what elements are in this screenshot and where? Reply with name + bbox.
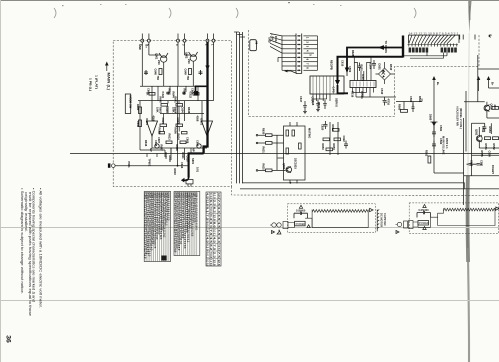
svg-text:MODE SW: MODE SW: [129, 96, 133, 109]
fold mark 4: [414, 8, 416, 18]
svg-text:0.022: 0.022: [161, 92, 165, 99]
svg-text:R616: R616: [144, 140, 148, 147]
svg-text:2.3: 2.3: [213, 252, 217, 259]
svg-text:R618: R618: [168, 156, 172, 163]
svg-text:R628: R628: [351, 50, 355, 57]
svg-text:C608: C608: [186, 137, 190, 144]
fold mark 1: [54, 8, 56, 18]
svg-text:7.5: 7.5: [217, 252, 221, 259]
svg-text:C502: C502: [348, 66, 352, 73]
svg-text:C620: C620: [321, 124, 325, 131]
ladder right rail: [301, 34, 303, 74]
terminal P601: [112, 164, 116, 168]
svg-text:REC/PB: REC/PB: [330, 60, 334, 70]
speck marks: [100, 4, 102, 5]
svg-text:R630: R630: [262, 128, 266, 135]
svg-text:P601: P601: [127, 162, 131, 169]
base wires: [149, 54, 161, 56]
svg-text:0.3 0: 0.3 0: [206, 244, 210, 251]
cap C562: [432, 141, 436, 149]
right block frame wires: [464, 55, 499, 205]
svg-text:R554: R554: [488, 127, 492, 134]
dashed box A main amp P.C.B.: [113, 41, 231, 187]
bridge arrows: [382, 70, 385, 73]
thick feed wire B: [338, 57, 404, 83]
svg-text:TP601: TP601: [148, 159, 152, 167]
svg-text:7.5: 7.5: [206, 214, 210, 221]
ladder bottom arrow: [284, 70, 287, 73]
svg-text:4.5: 4.5: [217, 229, 221, 236]
transistor Q602: [190, 55, 196, 61]
component blob: [194, 91, 198, 96]
svg-text:2.3: 2.3: [213, 200, 217, 207]
plug connector 2: [396, 221, 419, 229]
thick feed wire A: [347, 48, 404, 72]
svg-text:(MODEL V CON.): (MODEL V CON.): [459, 108, 463, 129]
transistor Q550: [484, 105, 490, 111]
emitter resistor drops: [163, 66, 165, 86]
bridge wires: [376, 62, 395, 84]
svg-text:NP: NP: [192, 148, 196, 152]
transistor Q551: [476, 136, 482, 142]
svg-text:C.FG: C.FG: [332, 87, 336, 93]
motor block 2 dashed enclosure: [409, 203, 499, 234]
svg-text:1.2 8.6: 1.2 8.6: [209, 259, 213, 266]
svg-text:Q602: Q602: [184, 52, 188, 59]
svg-text:4.5: 4.5: [213, 237, 217, 244]
cap C552: [483, 123, 486, 132]
svg-text:0.6 0.3: 0.6 0.3: [217, 244, 221, 251]
wire A tail to IC: [346, 72, 348, 77]
dashed segment y194.5: [232, 187, 499, 196]
wire from P601: [115, 165, 189, 167]
svg-text:4.5: 4.5: [209, 237, 213, 244]
svg-text:C560: C560: [409, 96, 413, 103]
heater element bar 2: [418, 208, 495, 227]
svg-text:D560: D560: [429, 114, 433, 121]
IC pin hatch: [313, 76, 333, 94]
svg-text:R605: R605: [158, 128, 162, 135]
svg-text:C613: C613: [161, 118, 165, 125]
svg-text:B+: B+: [436, 82, 440, 86]
svg-text:4.5: 4.5: [206, 193, 210, 200]
svg-text:C617: C617: [299, 96, 303, 103]
svg-text:5.6K: 5.6K: [156, 107, 160, 113]
svg-text:IC601: IC601: [200, 118, 204, 125]
terminal ink blob: [108, 163, 111, 167]
svg-text:AUX,DOLBY NR: AUX,DOLBY NR: [456, 106, 460, 126]
svg-text:12.6: 12.6: [213, 214, 217, 221]
cap C560: [412, 104, 415, 113]
faint rule y=227: [0, 227, 499, 229]
resistor R631: [266, 142, 273, 145]
svg-text:R643: R643: [183, 89, 187, 96]
svg-text:784: 784: [186, 76, 190, 81]
svg-text:B+: B+: [144, 45, 148, 49]
box A interconnect stubs: [147, 86, 198, 157]
svg-text:R646: R646: [187, 107, 191, 114]
left rail: [139, 101, 141, 150]
input arrows block1: [272, 231, 275, 234]
IC501 top pins: [354, 57, 371, 81]
svg-text:DOLBY: DOLBY: [491, 165, 495, 174]
svg-text:2SC: 2SC: [157, 60, 161, 65]
svg-text:14 13 12 11 10 9 8 7 6 5 4 3 2: 14 13 12 11 10 9 8 7 6 5 4 3 2 1: [409, 31, 460, 35]
svg-text:4.5: 4.5: [217, 222, 221, 229]
diode bridge D501: [379, 68, 391, 80]
svg-text:R560: R560: [398, 104, 402, 111]
svg-text:C648: C648: [154, 69, 158, 76]
svg-text:C607: C607: [157, 137, 161, 144]
dashed bottom segment right: [231, 186, 233, 188]
diagonal fan to edge: [270, 34, 282, 54]
svg-text:R644: R644: [172, 92, 176, 99]
voltage table block 1: [144, 192, 170, 262]
svg-text:0.01: 0.01: [196, 167, 200, 173]
svg-text:S601: S601: [191, 158, 195, 165]
voltage table block 3: [206, 192, 221, 266]
fold mark 3: [236, 8, 238, 18]
connector pin circles on box edge: [141, 39, 144, 42]
svg-text:3.4 5.1: 3.4 5.1: [206, 229, 210, 236]
svg-text:4.5: 4.5: [217, 214, 221, 221]
svg-text:Q603: Q603: [282, 163, 286, 170]
connector CN501 body line: [409, 35, 460, 43]
connector CB601 pin stubs: [141, 34, 143, 40]
svg-text:R CH: R CH: [274, 36, 278, 42]
svg-text:7.5 4.5: 7.5 4.5: [209, 252, 213, 259]
svg-text:• Schematic diagram is subject: • Schematic diagram is subject to change…: [20, 188, 24, 294]
svg-text:R647: R647: [160, 145, 164, 152]
svg-text:R611: R611: [181, 153, 185, 160]
IC bottom pin stubs: [313, 94, 330, 101]
svg-text:C615: C615: [341, 60, 345, 67]
POWER box 1: [295, 221, 306, 226]
faint rule y=300: [0, 300, 499, 302]
svg-text:C622: C622: [342, 136, 346, 143]
ladder left feed wires: [270, 34, 318, 74]
Q603 sub-circuit box: [284, 126, 306, 180]
resistor R560: [401, 110, 408, 113]
svg-text:0.022: 0.022: [189, 92, 193, 99]
svg-text:6.2: 6.2: [209, 244, 213, 251]
capacitor sym block2: [417, 211, 431, 218]
resistor R562: [428, 156, 431, 163]
CN501 fan wires: [409, 35, 455, 43]
svg-text:R642: R642: [168, 89, 172, 96]
svg-text:C510: C510: [380, 88, 384, 95]
MODE SW label box: [125, 94, 130, 114]
mid cluster C/R x322-350: [323, 121, 348, 155]
plug connector 1: [270, 222, 295, 229]
bus wire x236.5: [236, 32, 238, 183]
svg-text:0.6 1.2: 0.6 1.2: [206, 252, 210, 259]
svg-text:2SC1815: 2SC1815: [294, 158, 298, 169]
svg-text:1 (FLAT): 1 (FLAT): [95, 75, 99, 89]
resistor R632: [266, 169, 273, 172]
cap C551: [475, 164, 483, 166]
notes bullet text: [20, 188, 43, 316]
ground symbols: [303, 110, 320, 114]
right side wires: [303, 35, 317, 37]
svg-text:8.6 5.1: 8.6 5.1: [206, 222, 210, 229]
ladder pin arrowheads: [297, 35, 301, 71]
right-mid cluster wires: [396, 79, 464, 173]
svg-text:0.1: 0.1: [209, 200, 213, 207]
caps cluster below ladder: [303, 100, 327, 111]
IC501 bottom pins: [353, 88, 397, 98]
svg-text:R613: R613: [168, 134, 172, 141]
svg-text:C603: C603: [165, 107, 169, 114]
resistor R552: [493, 137, 499, 140]
svg-text:5.6K: 5.6K: [172, 107, 176, 113]
svg-text:Q609 6.2 5.1 0 8.6 5.1 2.3: Q609 6.2 5.1 0 8.6 5.1 2.3: [166, 192, 170, 221]
warning triangle 2b: [423, 227, 426, 230]
svg-text:R610: R610: [164, 153, 168, 160]
table block1 text rows: [144, 192, 171, 259]
svg-text:R632: R632: [262, 164, 266, 171]
scan crease smudge: [468, 0, 471, 34]
svg-text:3.4: 3.4: [217, 237, 221, 244]
bus wire x242.4: [241, 32, 243, 183]
arrow on wire A: [378, 45, 384, 50]
svg-text:R552: R552: [492, 144, 496, 151]
thick bus riser: [402, 36, 404, 58]
svg-text:R653: R653: [321, 144, 325, 151]
svg-text:Q550: Q550: [490, 104, 494, 111]
svg-text:100/400: 100/400: [296, 209, 306, 213]
svg-text:C649: C649: [183, 69, 187, 76]
svg-text:7.5: 7.5: [209, 229, 213, 236]
svg-text:R561: R561: [418, 96, 422, 103]
svg-text:R516: R516: [351, 91, 355, 98]
svg-text:R614: R614: [177, 134, 181, 141]
svg-text:5.1 2.3: 5.1 2.3: [209, 193, 213, 199]
svg-text:7.5: 7.5: [213, 244, 217, 251]
svg-text:2SC: 2SC: [187, 59, 191, 64]
bus wire y86: [140, 85, 206, 87]
svg-text:TO CB601: TO CB601: [384, 41, 388, 54]
extra labels box A density: [136, 89, 200, 176]
svg-text:GND: GND: [267, 37, 271, 43]
svg-text:Q551: Q551: [475, 129, 479, 136]
thick signal wire from pin 5: [189, 42, 208, 178]
arrowhead wire B: [335, 80, 340, 86]
svg-text:5.1 5.1: 5.1 5.1: [213, 229, 217, 236]
op-amp IC601b: [202, 121, 213, 136]
right arrow tri 2: [496, 207, 499, 210]
svg-text:2SC: 2SC: [493, 105, 497, 110]
ground arrow block1: [277, 230, 281, 234]
ladder pin pairs: [294, 36, 301, 70]
right arrow tri 1: [370, 208, 373, 211]
input arrows block2: [396, 231, 399, 234]
cap C510 below: [383, 97, 387, 106]
part labels amp: [136, 44, 204, 165]
IC501 hatch texture: [353, 82, 374, 87]
diode D560: [431, 122, 438, 129]
svg-text:R619: R619: [173, 169, 177, 176]
cap C550: [467, 164, 475, 166]
long solid line y=198: [240, 188, 499, 190]
svg-text:12.6: 12.6: [217, 259, 221, 266]
svg-text:B+: B+: [491, 82, 495, 86]
arrowhead wire A down: [345, 68, 350, 73]
svg-text:R562: R562: [425, 150, 429, 157]
svg-text:7.5: 7.5: [217, 200, 221, 207]
svg-text:POWER: POWER: [419, 221, 429, 225]
input pins left: [256, 134, 265, 171]
svg-text:C611: C611: [136, 121, 140, 128]
svg-text:Q508 12.6 5.1 12.6 11.2 8.6 0.: Q508 12.6 5.1 12.6 11.2 8.6 0.3 12.6 2.3…: [194, 192, 198, 230]
svg-text:C561: C561: [439, 125, 443, 132]
svg-text:C604: C604: [181, 107, 185, 114]
cap C561: [432, 129, 436, 137]
bus wire x239.6: [239, 32, 241, 183]
svg-text:0.1: 0.1: [206, 207, 210, 214]
svg-text:0.1 0: 0.1 0: [213, 193, 217, 199]
arrow up B1: [477, 76, 481, 80]
svg-text:Q601: Q601: [155, 53, 159, 60]
IC601 REC/PB box: [310, 76, 344, 94]
svg-text:7.5 0.1: 7.5 0.1: [209, 207, 213, 214]
svg-text:IC501: IC501: [361, 74, 365, 81]
svg-text:IC601: IC601: [145, 118, 149, 125]
bus pin ticks: [234, 32, 245, 37]
capacitor sym block1: [294, 212, 308, 219]
arrow MAIN (L): [106, 64, 108, 71]
CN501 label boxes row: [409, 48, 457, 53]
capacitors C601-C606: [144, 70, 203, 148]
resistors R601-R612: [139, 69, 200, 144]
svg-text:R555: R555: [480, 151, 484, 158]
svg-text:47/16: 47/16: [387, 99, 391, 106]
svg-text:R551: R551: [484, 144, 488, 151]
svg-text:C618: C618: [311, 99, 315, 106]
wire end hook: [184, 178, 189, 181]
small component below box A: [186, 180, 193, 187]
svg-text:3.4: 3.4: [217, 207, 221, 214]
transistor Q603: [286, 167, 292, 173]
resistor R550: [492, 107, 499, 110]
heater element bar 1: [305, 210, 368, 228]
svg-text:POWER: POWER: [296, 222, 306, 226]
warning triangle 2a: [423, 205, 426, 208]
arrow up B2: [487, 76, 491, 80]
svg-text:4558: 4558: [196, 116, 200, 122]
svg-text:CAPSTAN: CAPSTAN: [383, 213, 387, 225]
wires to box: [272, 122, 297, 183]
bottom joins: [151, 136, 153, 148]
svg-text:5.1 0.6: 5.1 0.6: [206, 259, 210, 266]
svg-text:C551: C551: [480, 160, 484, 167]
svg-text:36: 36: [4, 335, 11, 343]
svg-text:4558: 4558: [152, 116, 156, 122]
svg-text:C610: C610: [186, 156, 190, 163]
svg-text:NP: NP: [149, 148, 153, 152]
POWER box 2: [418, 221, 429, 226]
resistor R630: [266, 134, 273, 137]
voltage table block 2: [174, 192, 200, 256]
svg-text:1K: 1K: [146, 92, 150, 95]
svg-text:R620: R620: [136, 104, 140, 111]
svg-text:MUTING: MUTING: [308, 128, 312, 138]
svg-text:C552: C552: [481, 126, 485, 133]
net tag box P.C.B.: [250, 40, 257, 51]
dashed boundary B: [249, 30, 479, 117]
svg-text:0 0: 0 0: [209, 222, 213, 229]
svg-text:• All voltages are measured wi: • All voltages are measured with a 10MΩ/…: [39, 188, 43, 308]
svg-text:1 PB (L): 1 PB (L): [89, 78, 93, 91]
extra labels box A band2: [149, 92, 200, 173]
table block2 text rows: [173, 192, 198, 252]
svg-text:11.2 6.2: 11.2 6.2: [217, 193, 221, 199]
svg-text:R510: R510: [389, 64, 393, 71]
svg-text:C616: C616: [180, 162, 184, 169]
svg-text:GND: GND: [138, 44, 142, 50]
CN501 lower wires: [404, 53, 447, 59]
svg-text:C504: C504: [369, 63, 373, 70]
center rails: [151, 86, 153, 121]
table block1 footer cell: [162, 256, 167, 261]
warning triangle 1b: [307, 225, 310, 228]
svg-text:R631: R631: [262, 147, 266, 154]
resistors in box: [286, 130, 289, 136]
thick stub below arrow B: [338, 85, 349, 93]
ladder connector CB602 left rail: [295, 34, 297, 74]
svg-text:12.6: 12.6: [206, 200, 210, 206]
table block3 cell text: [206, 193, 222, 266]
fold mark 2: [169, 8, 171, 18]
svg-text:MAIN VOLUME: MAIN VOLUME: [442, 136, 446, 155]
svg-text:C554: C554: [488, 151, 492, 158]
svg-text:R652: R652: [331, 125, 335, 132]
svg-text:6.2: 6.2: [213, 207, 217, 214]
warning triangle 1a: [299, 205, 302, 208]
svg-text:DC MOTOR: DC MOTOR: [380, 213, 384, 227]
shield line 1: [377, 210, 379, 232]
svg-text:R503: R503: [360, 65, 364, 72]
thick wire arrowhead: [205, 66, 209, 71]
svg-text:784: 784: [156, 76, 160, 81]
caps near IC501: [358, 60, 376, 71]
svg-text:TP501: TP501: [360, 91, 364, 99]
svg-text:1K: 1K: [195, 92, 199, 95]
junction dot: [177, 165, 179, 167]
svg-text:4.5: 4.5: [206, 237, 210, 244]
motor block 1 dashed enclosure: [288, 204, 376, 233]
resistor R551: [485, 137, 491, 140]
CN501 pin header row: [408, 44, 459, 47]
svg-text:8.6: 8.6: [213, 222, 217, 229]
svg-text:0.3: 0.3: [209, 214, 213, 221]
svg-text:C606: C606: [196, 140, 200, 147]
svg-text:R500 2.1: R500 2.1: [445, 138, 449, 149]
wire drops from connector: [141, 42, 143, 86]
svg-text:12.6: 12.6: [213, 259, 217, 266]
svg-text:R648: R648: [175, 145, 179, 152]
scan edge left: [0, 0, 1, 362]
svg-text:R654: R654: [332, 144, 336, 151]
bus wire y100: [138, 100, 214, 102]
B+ stub marks top right: [460, 35, 475, 40]
svg-text:SERVO: SERVO: [335, 98, 339, 107]
long rule wire y=153: [70, 153, 499, 155]
ladder bottom link: [287, 71, 302, 74]
left bus verticals: [281, 36, 283, 70]
transistor Q601: [161, 56, 167, 62]
svg-text:D501: D501: [378, 64, 382, 71]
